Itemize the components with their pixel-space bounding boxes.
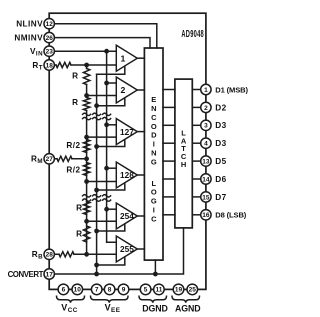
comparator 1: [116, 45, 137, 71]
svg-text:D3: D3: [215, 139, 226, 148]
wire NMINV pin26 to encoding logic: [49, 38, 150, 48]
wire encoder bit 3 to latch: [163, 124, 175, 126]
pin 15 D7: [201, 192, 211, 202]
svg-text:17: 17: [46, 271, 54, 278]
node ladder tap comparator 254: [84, 219, 89, 224]
svg-text:R: R: [76, 230, 82, 239]
resistor RT series: [56, 62, 71, 67]
svg-text:N: N: [151, 104, 156, 113]
resistor R/2 ladder lower-mid: [66, 163, 89, 176]
resistor R ladder 1: [72, 69, 90, 85]
node encoding clock junction: [153, 272, 158, 277]
svg-text:13: 13: [202, 159, 210, 166]
svg-text:9: 9: [122, 287, 126, 294]
node VIN bus to comparator 127: [104, 122, 116, 127]
svg-text:14: 14: [202, 176, 210, 183]
svg-text:DGND: DGND: [142, 303, 168, 313]
wire latch to pin 14: [192, 178, 201, 180]
wire encoder bit 5 to latch: [163, 160, 175, 162]
svg-text:12: 12: [46, 21, 54, 28]
wire NLINV pin12 to encoding logic: [49, 24, 157, 48]
node CONVERT bus junction: [94, 272, 99, 277]
pin 8 VEE: [104, 284, 115, 295]
wire encoder bit 2 to latch: [163, 106, 175, 108]
svg-text:O: O: [151, 122, 157, 131]
label VIN: [30, 47, 43, 58]
svg-text:15: 15: [202, 194, 210, 201]
wire encoder bit 7 to latch: [163, 196, 175, 198]
wire clock to comparator 127: [97, 139, 125, 146]
svg-text:G: G: [151, 158, 157, 167]
break mark 1-2: [93, 113, 101, 120]
svg-text:CONVERT: CONVERT: [8, 270, 44, 279]
wire tap to comparator 2: [87, 95, 117, 97]
svg-text:D1 (MSB): D1 (MSB): [215, 85, 248, 94]
resistor RM series: [57, 156, 72, 161]
svg-text:255: 255: [120, 244, 134, 254]
label D7: [215, 193, 226, 202]
pin 26 NMINV: [44, 32, 54, 42]
wire encoder bit 4 to latch: [163, 142, 175, 144]
svg-text:23: 23: [46, 49, 54, 56]
svg-text:AD9048: AD9048: [181, 29, 204, 40]
label D3: [215, 139, 226, 148]
wire output comparator 1: [137, 57, 144, 59]
svg-text:R: R: [72, 98, 78, 107]
svg-text:NLINV: NLINV: [16, 20, 43, 29]
label D8 (LSB): [215, 211, 246, 220]
svg-text:8: 8: [108, 287, 112, 294]
svg-text:28: 28: [46, 252, 54, 259]
wire output comparator 2: [137, 89, 144, 91]
svg-text:N: N: [151, 149, 156, 158]
IC outline AD9048: [49, 13, 206, 289]
pin 19 AGND: [173, 284, 184, 295]
break mark 1-3: [103, 113, 111, 120]
svg-text:6: 6: [62, 287, 66, 294]
wire latch to pin 4: [192, 142, 201, 144]
svg-text:1: 1: [204, 87, 208, 94]
wire clock to comparator 255: [97, 257, 125, 265]
svg-text:27: 27: [46, 156, 54, 163]
wire latch to pin 13: [192, 160, 201, 162]
encoding logic block: [144, 48, 163, 260]
label CONVERT: [8, 270, 44, 279]
brace AGND group: [172, 296, 200, 303]
node ladder tap comparator 127: [84, 135, 89, 140]
wire tap to comparator 254: [87, 220, 117, 222]
wire CONVERT bus vertical: [96, 74, 98, 274]
svg-text:E: E: [151, 95, 156, 104]
svg-text:16: 16: [202, 212, 210, 219]
wire VIN pin23 to comparator 1: [49, 50, 116, 52]
wire latch to pin 2: [192, 106, 201, 108]
comparator 127: [116, 119, 137, 145]
brace DGND group: [139, 296, 167, 303]
label AGND: [175, 303, 201, 313]
wire latch to pin 3: [192, 124, 201, 126]
svg-text:128: 128: [120, 170, 134, 180]
wire latch to pin 1: [192, 89, 201, 91]
node VIN bus to comparator 128: [104, 166, 116, 171]
svg-text:C: C: [151, 215, 157, 224]
wire encoding logic clock stub: [154, 260, 156, 274]
label DGND: [142, 303, 168, 313]
pin 16 D8 (LSB): [201, 210, 211, 220]
svg-text:L: L: [152, 179, 157, 188]
pin 25 AGND: [187, 284, 198, 295]
svg-text:5: 5: [144, 287, 148, 294]
wire output comparator 128: [137, 174, 144, 176]
svg-text:AGND: AGND: [175, 303, 201, 313]
svg-text:11: 11: [155, 287, 162, 294]
pin 10 VCC: [72, 284, 83, 295]
wire latch to pin 16: [192, 214, 201, 216]
resistor R ladder 4: [76, 226, 90, 242]
node CONVERT bus to comparator 127: [94, 144, 99, 149]
resistor R/2 ladder upper-mid: [66, 140, 89, 153]
wire clock to comparator 2: [97, 98, 125, 106]
resistor RB series: [59, 252, 74, 257]
pin 23 VIN: [44, 46, 54, 56]
pin 3 D3: [201, 120, 211, 130]
comparator 2: [116, 77, 137, 103]
label VEE: [105, 302, 121, 314]
node ladder tap comparator 128: [84, 179, 89, 184]
svg-text:D: D: [151, 131, 157, 140]
node ladder mid RM: [84, 156, 89, 161]
wire latch to pin 15: [192, 196, 201, 198]
pin 7 VEE: [91, 284, 102, 295]
svg-text:D8 (LSB): D8 (LSB): [215, 211, 246, 220]
break mark 2-2: [93, 195, 101, 202]
pin 17 CONVERT: [44, 269, 54, 279]
wire clock to comparator 1: [97, 66, 125, 74]
pin 4 D3: [201, 138, 211, 148]
node VIN bus to comparator 2: [104, 81, 116, 86]
break mark 1-1: [83, 113, 91, 120]
node ladder bottom RB: [84, 252, 89, 257]
latch block: [175, 79, 192, 228]
svg-text:R/2: R/2: [66, 166, 80, 175]
svg-text:I: I: [153, 140, 155, 149]
node VIN bus to comparator 254: [104, 207, 116, 212]
svg-text:D6: D6: [215, 175, 226, 184]
brace VEE group: [91, 296, 129, 303]
wire output comparator 254: [137, 215, 144, 217]
svg-text:R: R: [72, 72, 78, 81]
svg-text:I: I: [153, 206, 155, 215]
break mark 2-3: [103, 195, 111, 202]
label RT: [32, 61, 43, 72]
label D3: [215, 121, 226, 130]
node ladder tap comparator 2: [84, 93, 89, 98]
svg-text:7: 7: [95, 287, 99, 294]
node CONVERT bus to comparator 254: [94, 229, 99, 234]
wire output comparator 127: [137, 131, 144, 133]
svg-text:NMINV: NMINV: [14, 34, 43, 43]
node ladder top RT: [84, 63, 89, 68]
pin 5 DGND: [140, 284, 151, 295]
wire VIN bus vertical: [107, 51, 117, 242]
node CONVERT bus to comparator 128: [94, 188, 99, 193]
svg-text:D5: D5: [215, 157, 226, 166]
resistor R ladder 3: [76, 202, 90, 215]
label VCC: [61, 302, 77, 314]
node CONVERT bus to comparator 255: [94, 263, 99, 268]
wire tap to comparator 127: [87, 136, 117, 138]
wire RT pin18 to ladder: [49, 64, 116, 66]
break mark 2-1: [83, 195, 91, 202]
wire encoder bit 8 to latch: [163, 214, 175, 216]
svg-text:3: 3: [204, 123, 208, 130]
label AD9048: [181, 29, 204, 40]
pin 14 D6: [201, 174, 211, 184]
wire tap to comparator 128: [87, 181, 117, 183]
pin 6 VCC: [58, 284, 69, 295]
svg-text:10: 10: [74, 287, 82, 294]
svg-text:O: O: [151, 188, 157, 197]
comparator 128: [116, 162, 137, 188]
svg-text:19: 19: [175, 287, 183, 294]
pin 9 VEE: [118, 284, 129, 295]
svg-text:2: 2: [204, 105, 208, 112]
svg-text:4: 4: [204, 141, 208, 148]
resistor R ladder 2: [72, 98, 90, 111]
node VIN bus tap: [104, 49, 109, 54]
pin 27 RM: [44, 154, 54, 164]
pin 18 RT: [44, 60, 54, 70]
pin 13 D5: [201, 156, 211, 166]
svg-text:D7: D7: [215, 193, 226, 202]
svg-text:2: 2: [120, 85, 125, 95]
pin 1 D1 (MSB): [201, 84, 211, 94]
label D2: [215, 103, 226, 112]
label NMINV: [14, 34, 43, 43]
label D1 (MSB): [215, 85, 248, 94]
comparator 254: [116, 203, 137, 229]
wire RB pin28 to comparator 255: [49, 253, 116, 255]
wire clock to comparator 254: [97, 224, 125, 231]
svg-text:1: 1: [120, 53, 125, 63]
comparator 255: [116, 236, 137, 262]
label RB: [32, 250, 43, 261]
svg-text:G: G: [151, 197, 157, 206]
pin 12 NLINV: [44, 19, 54, 29]
wire CONVERT pin17 to latch: [49, 228, 183, 274]
svg-text:127: 127: [120, 127, 134, 137]
wire encoder bit 1 to latch: [163, 89, 175, 91]
wire reference ladder: [86, 65, 88, 254]
label RM: [31, 155, 43, 166]
label D5: [215, 157, 226, 166]
wire encoder bit 6 to latch: [163, 178, 175, 180]
svg-text:18: 18: [46, 62, 54, 69]
brace VCC group: [57, 296, 85, 303]
wire RM pin27 to ladder: [49, 158, 86, 160]
label D6: [215, 175, 226, 184]
wire output comparator 255: [137, 248, 144, 250]
svg-text:R: R: [76, 204, 82, 213]
node CONVERT bus to comparator 2: [94, 103, 99, 108]
svg-text:C: C: [151, 113, 157, 122]
svg-text:R/2: R/2: [66, 141, 80, 150]
label NLINV: [16, 20, 43, 29]
pin 2 D2: [201, 102, 211, 112]
svg-text:25: 25: [189, 287, 197, 294]
svg-text:254: 254: [120, 211, 134, 221]
pin 28 RB: [44, 249, 54, 259]
pin 11 DGND: [154, 284, 165, 295]
svg-text:26: 26: [46, 35, 54, 42]
svg-text:D3: D3: [215, 121, 226, 130]
wire clock to comparator 128: [97, 183, 125, 190]
svg-text:H: H: [181, 160, 186, 169]
svg-text:D2: D2: [215, 103, 226, 112]
